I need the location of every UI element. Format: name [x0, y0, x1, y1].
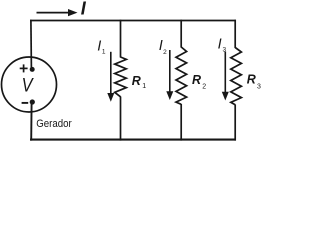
polarity - symbol [22, 102, 29, 104]
polarity + symbol [20, 64, 28, 72]
svg-text:3: 3 [257, 83, 261, 90]
wire branch 3 bottom segment [234, 105, 236, 141]
wire top bus [30, 20, 236, 22]
label I1 [97, 38, 106, 55]
wire left vertical (generator top lead) [30, 20, 33, 70]
svg-text:R: R [132, 74, 141, 88]
wire left vertical (generator bottom lead) [30, 102, 32, 141]
label R3 [247, 73, 261, 91]
current arrow I1 [107, 52, 114, 102]
label I3 [218, 37, 227, 54]
svg-text:1: 1 [142, 83, 146, 90]
svg-text:R: R [247, 73, 256, 87]
current arrow I2 [166, 50, 173, 100]
svg-text:2: 2 [202, 84, 206, 91]
wire branch 1 top segment [120, 20, 122, 58]
current arrow I (top) [37, 9, 78, 16]
svg-text:1: 1 [102, 48, 106, 55]
wire branch 3 top segment [234, 20, 236, 48]
svg-text:R: R [192, 73, 201, 87]
svg-text:I: I [97, 38, 101, 54]
svg-text:Gerador: Gerador [36, 118, 72, 130]
wire branch 2 top segment [180, 20, 182, 48]
svg-text:I: I [218, 37, 222, 53]
wire branch 1 bottom segment [120, 97, 122, 141]
label I (total current) [81, 0, 87, 19]
current arrow I3 [222, 52, 229, 101]
label R1 [132, 74, 147, 90]
svg-text:V: V [22, 74, 35, 96]
label I2 [159, 38, 167, 56]
resistor R2 zigzag [176, 47, 187, 104]
svg-text:2: 2 [163, 49, 167, 56]
wire branch 2 bottom segment [180, 104, 182, 141]
node - terminal junction dot [30, 99, 35, 104]
generator (voltage source) circle [2, 57, 57, 112]
resistor R1 zigzag [115, 57, 127, 97]
label Gerador [36, 118, 72, 130]
resistor R3 zigzag [231, 48, 242, 105]
node + terminal junction dot [30, 67, 35, 72]
label R2 [192, 73, 206, 91]
label V (source voltage) [22, 74, 35, 96]
svg-text:3: 3 [223, 47, 227, 54]
wire bottom bus [30, 139, 236, 141]
